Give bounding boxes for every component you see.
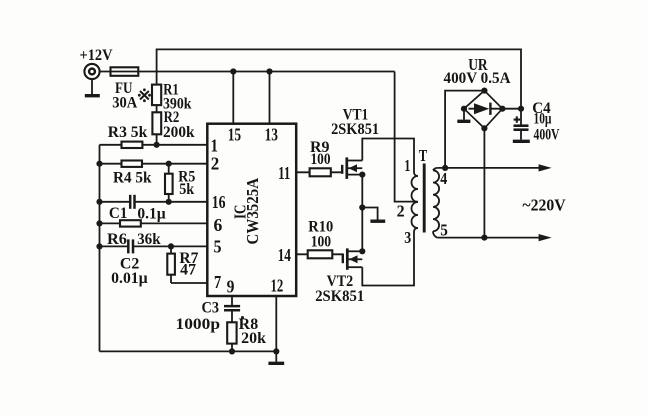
reference mark xyxy=(138,88,151,102)
wire bridge bottom vertex to line5 xyxy=(483,128,485,237)
svg-text:CW3525A: CW3525A xyxy=(243,177,262,244)
svg-text:1: 1 xyxy=(211,135,219,155)
transistor Q1 VT1 2SK851 xyxy=(342,157,362,179)
capacitor C4 polarity plus xyxy=(514,116,520,122)
wire pin1 line xyxy=(100,144,208,146)
terminal +12V input xyxy=(84,64,99,79)
wire pin12 down xyxy=(275,296,277,351)
resistor R10 xyxy=(308,250,333,258)
svg-text:1000p: 1000p xyxy=(176,316,221,333)
wire pin9 stub xyxy=(231,296,233,305)
node VT2 source xyxy=(359,248,365,254)
node VT1 source xyxy=(359,172,365,178)
node rail/pin5 xyxy=(96,243,102,249)
node rail/pin16 xyxy=(96,199,102,205)
node R5 bottom xyxy=(166,199,172,205)
resistor R1 xyxy=(152,72,161,106)
wire pin14 line xyxy=(296,253,343,255)
svg-text:9: 9 xyxy=(227,276,235,296)
svg-text:UR: UR xyxy=(468,55,488,74)
svg-text:3: 3 xyxy=(404,228,411,247)
node line4/bridge feed xyxy=(442,165,448,171)
transformer T primary winding xyxy=(412,172,419,232)
svg-text:5: 5 xyxy=(440,221,448,240)
wire output line pin4 xyxy=(437,167,539,169)
node R5 top xyxy=(166,161,172,167)
transformer T secondary winding xyxy=(433,168,439,238)
svg-text:R6: R6 xyxy=(107,231,127,248)
node line5/bridge bottom xyxy=(481,235,487,241)
capacitor C1 xyxy=(130,195,134,209)
svg-text:C3: C3 xyxy=(202,299,220,316)
resistor R3 xyxy=(122,142,143,148)
IC U1 CW3525A body xyxy=(207,124,296,296)
node rail/pin6 xyxy=(96,220,102,226)
node pin12/bottom xyxy=(273,348,279,354)
svg-text:C1: C1 xyxy=(109,205,128,222)
capacitor C4 xyxy=(514,109,529,140)
svg-text:100: 100 xyxy=(311,233,332,250)
capacitor C3 xyxy=(224,306,240,310)
svg-text:0.1µ: 0.1µ xyxy=(137,206,165,223)
wire pin5 line xyxy=(100,245,208,247)
svg-text:14: 14 xyxy=(278,245,291,265)
svg-text:12: 12 xyxy=(271,276,284,296)
wire VT2 drain to transformer pin3 xyxy=(362,232,414,286)
node bridge top xyxy=(481,88,487,94)
svg-text:200k: 200k xyxy=(163,124,195,141)
svg-text:10µ: 10µ xyxy=(534,111,552,128)
wire pin2 line xyxy=(100,163,208,165)
transistor Q2 VT2 2SK851 xyxy=(343,248,363,269)
resistor R9 xyxy=(310,168,331,176)
wire bridge right to C4 xyxy=(502,108,521,110)
svg-text:100: 100 xyxy=(311,151,331,168)
svg-text:6: 6 xyxy=(214,215,223,235)
svg-text:16: 16 xyxy=(212,192,226,212)
svg-text:T: T xyxy=(419,146,428,165)
wire bridge top vertex to line4 xyxy=(445,91,484,168)
stray mark (scan artifact near R8) xyxy=(241,316,244,319)
svg-text:2: 2 xyxy=(397,202,405,221)
svg-text:20k: 20k xyxy=(241,330,266,347)
node bridge bottom xyxy=(481,125,487,131)
node rail/pin2 xyxy=(96,161,102,167)
capacitor C2 xyxy=(128,239,133,253)
wire bottom return xyxy=(100,350,277,352)
svg-text:+12V: +12V xyxy=(80,47,114,64)
svg-text:~220V: ~220V xyxy=(522,195,566,214)
wire pin7 line xyxy=(171,282,207,284)
transformer core xyxy=(423,164,426,233)
node R2/pin1 xyxy=(154,142,160,148)
wire output line pin5 xyxy=(437,237,539,239)
svg-text:2SK851: 2SK851 xyxy=(331,121,379,138)
resistor R7 xyxy=(167,246,175,283)
svg-text:5: 5 xyxy=(214,237,222,257)
ground (below pin12) xyxy=(268,351,284,363)
svg-text:R3 5k: R3 5k xyxy=(108,124,148,141)
wire top bus xyxy=(157,49,521,108)
wire pin16 line xyxy=(100,201,208,203)
svg-text:13: 13 xyxy=(265,125,278,145)
wire +12V rail xyxy=(100,71,395,73)
arrow output top xyxy=(539,164,552,171)
resistor R6 xyxy=(120,220,141,226)
fuse FU xyxy=(111,67,139,76)
svg-text:4: 4 xyxy=(440,169,447,188)
svg-text:0.01µ: 0.01µ xyxy=(111,270,148,287)
wire pin11 line xyxy=(296,171,342,173)
node bridge left xyxy=(461,106,467,112)
wire pin15 to +12V rail xyxy=(232,72,234,124)
wire pin13 to +12V rail xyxy=(269,72,271,124)
svg-text:36k: 36k xyxy=(137,231,161,248)
node bridge right xyxy=(499,106,505,112)
rectifier UR bridge xyxy=(464,91,502,129)
node on rail at pin13 xyxy=(266,68,272,74)
node R7 top xyxy=(168,243,174,249)
wire VT1 drain to transformer pin1 xyxy=(362,139,414,173)
node source midpoint xyxy=(359,204,365,210)
node R8 bottom xyxy=(229,348,235,354)
svg-text:30A: 30A xyxy=(112,94,137,111)
svg-text:7: 7 xyxy=(214,272,221,292)
resistor R2 xyxy=(152,105,161,145)
wire left rail xyxy=(99,145,101,352)
svg-text:5k: 5k xyxy=(179,181,194,198)
wire pin6 line xyxy=(100,222,208,224)
ground (below C4) xyxy=(513,140,530,143)
resistor R8 xyxy=(227,311,236,351)
svg-text:15: 15 xyxy=(228,125,241,145)
ground (MOSFET sources) xyxy=(362,208,385,222)
svg-text:400V: 400V xyxy=(534,127,561,144)
svg-text:2SK851: 2SK851 xyxy=(315,288,364,305)
wire center tap feed xyxy=(395,72,418,202)
svg-text:47: 47 xyxy=(180,262,196,279)
svg-text:2: 2 xyxy=(211,153,220,173)
ground (bridge left vertex) xyxy=(457,109,470,122)
node on rail at pin15 xyxy=(230,68,236,74)
ground (below +12V terminal) xyxy=(85,79,100,95)
resistor R5 xyxy=(165,164,173,202)
node C4 top xyxy=(518,106,524,112)
resistor R4 xyxy=(122,161,143,167)
svg-text:1: 1 xyxy=(404,156,410,175)
arrow output bottom xyxy=(539,234,552,241)
wire source rail xyxy=(361,175,363,252)
svg-text:11: 11 xyxy=(278,163,290,183)
svg-text:R4 5k: R4 5k xyxy=(113,170,152,187)
